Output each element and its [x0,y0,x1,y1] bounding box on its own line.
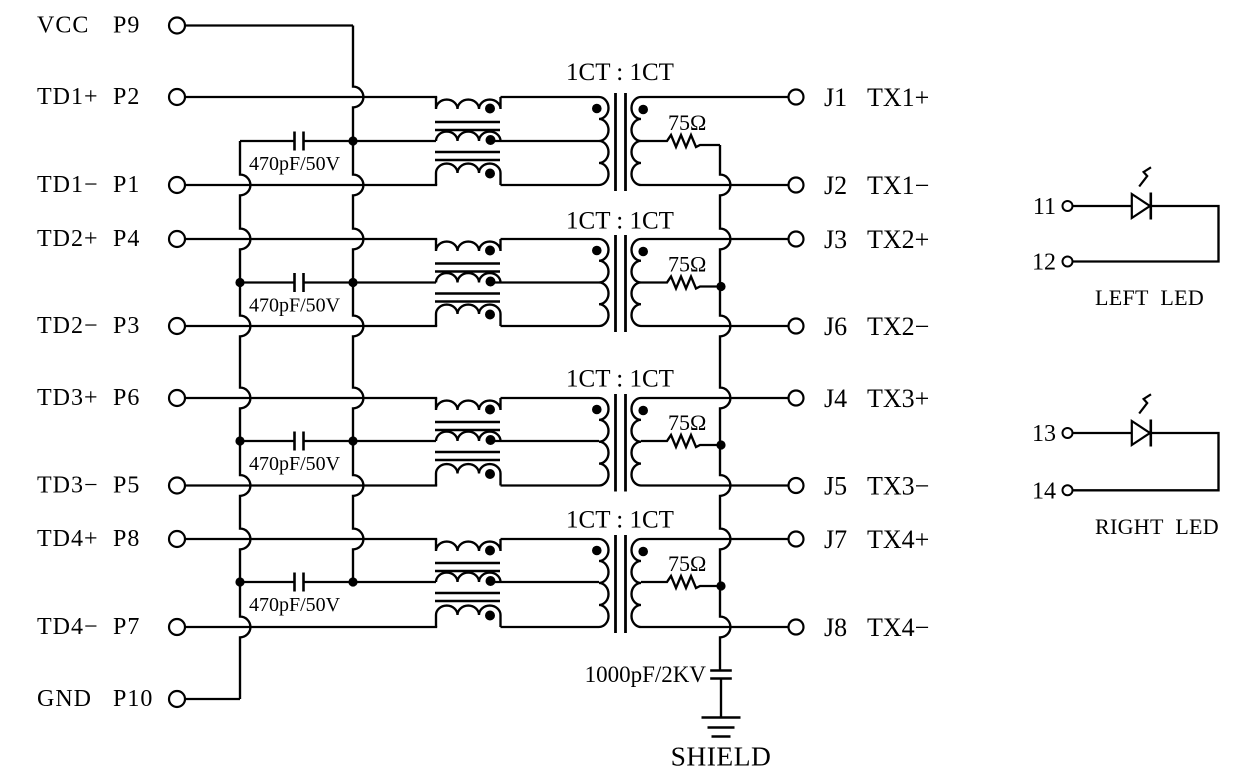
svg-text:TD2+: TD2+ [37,226,99,252]
wire TD1+ pin to choke top winding [186,96,437,98]
pin P10 (GND) terminal and label [37,686,185,712]
wire TD2− pin to choke bottom winding [186,325,437,327]
svg-text:470pF/50V: 470pF/50V [249,594,341,616]
wire transformer T3 secondary top to J4 [641,397,788,399]
common-mode choke (channel 4) 3 windings with core bars and polarity dots [435,539,501,627]
svg-text:470pF/50V: 470pF/50V [249,153,341,175]
svg-text:J7: J7 [824,525,847,554]
svg-text:75Ω: 75Ω [668,252,706,277]
pin J4 (TX3+) terminal and label [789,384,930,413]
pin J5 (TX3−) terminal and label [789,472,930,501]
svg-text:P8: P8 [113,526,140,552]
svg-text:TD2−: TD2− [37,313,99,339]
pin J6 (TX2−) terminal and label [789,312,930,341]
pin P2 (TD1+) terminal and label [37,84,185,110]
pin J3 (TX2+) terminal and label [789,225,930,254]
wire capacitor row left segment (ch3) [240,440,295,442]
transformer T2 (1CT:1CT) primary, secondary, core and polarity dots [592,235,648,332]
svg-text:TD3−: TD3− [37,473,99,499]
wire pin 11 to LED D1 [1073,205,1132,207]
wire transformer T4 secondary bottom to J8 [641,626,788,628]
capacitor 470pF/50V (channel 2) with value label [249,273,341,317]
pin J1 (TX1+) terminal and label [789,83,930,112]
wire capacitor to choke center winding (ch2) [304,281,437,283]
wire transformer T1 secondary bottom to J2 [641,184,788,186]
svg-text:TD1+: TD1+ [37,84,99,110]
wire TD3− pin to choke bottom winding [186,484,437,486]
svg-text:TD4+: TD4+ [37,526,99,552]
wire transformer T2 secondary bottom to J6 [641,325,788,327]
junction dot resistor / shield bus (ch3) [716,440,725,449]
wire choke center to transformer T4 primary center tap [490,581,599,583]
svg-text:11: 11 [1033,194,1056,220]
svg-text:GND: GND [37,686,92,712]
svg-text:TX1−: TX1− [867,171,929,200]
svg-text:P10: P10 [113,686,153,712]
wire capacitor to choke center winding (ch1) [304,140,437,142]
svg-text:P4: P4 [113,226,140,252]
capacitor 1000pF/2KV with value label [585,662,732,687]
junction dot cap row / VCC bus (ch1) [348,136,357,145]
svg-text:P9: P9 [113,13,140,39]
wire choke top to transformer T1 primary top [501,96,600,98]
wire transformer T4 secondary top to J7 [641,538,788,540]
svg-text:P3: P3 [113,313,140,339]
wire choke top to transformer T3 primary top [501,397,600,399]
svg-text:LEFT LED: LEFT LED [1095,285,1204,310]
svg-text:J4: J4 [824,384,847,413]
wire TD3+ pin to choke top winding [186,397,437,399]
svg-text:1000pF/2KV: 1000pF/2KV [585,662,707,687]
pin 13 (LED anode side) [1032,421,1073,447]
svg-text:TX3−: TX3− [867,472,929,501]
wire GND P10 to ground bus [186,698,240,700]
wire choke center to transformer T2 primary center tap [490,281,599,283]
pin J8 (TX4−) terminal and label [789,613,930,642]
wire capacitor row left segment (ch2) [240,281,295,283]
common-mode choke (channel 1) 3 windings with core bars and polarity dots [435,97,501,185]
resistor 75Ω (channel 4) with value label [641,551,720,588]
wire LED D1 cathode to pin 12 (right loop) [1073,206,1219,262]
transformer T3 (1CT:1CT) primary, secondary, core and polarity dots [592,394,648,492]
junction dot resistor / shield bus (ch2) [716,282,725,291]
svg-text:J1: J1 [824,83,847,112]
svg-text:TD4−: TD4− [37,614,99,640]
svg-text:1CT : 1CT: 1CT : 1CT [566,208,674,235]
pin P6 (TD3+) terminal and label [37,385,185,411]
ground SHIELD symbol and label [671,718,772,772]
LED D1 diode symbol with light arrow [1132,167,1151,219]
resistor 75Ω (channel 3) with value label [641,410,720,447]
svg-text:14: 14 [1032,478,1056,504]
pin P8 (TD4+) terminal and label [37,526,185,552]
junction dot resistor / shield bus (ch4) [716,581,725,590]
svg-text:P5: P5 [113,473,140,499]
pin P7 (TD4−) terminal and label [37,614,185,640]
pin P5 (TD3−) terminal and label [37,473,185,499]
wire choke bottom to transformer T4 primary bottom [501,626,600,628]
resistor 75Ω (channel 1) with value label [641,110,720,147]
junction dot cap row / VCC bus (ch3) [348,436,357,445]
svg-text:P7: P7 [113,614,140,640]
common-mode choke (channel 3) 3 windings with core bars and polarity dots [435,398,501,486]
svg-text:TX1+: TX1+ [867,83,929,112]
svg-text:75Ω: 75Ω [668,551,706,576]
svg-text:RIGHT LED: RIGHT LED [1095,514,1219,539]
pin J7 (TX4+) terminal and label [789,525,930,554]
junction dot cap row / VCC bus (ch2) [348,278,357,287]
svg-text:P6: P6 [113,385,140,411]
wire capacitor to choke center winding (ch3) [304,440,437,442]
wire choke top to transformer T4 primary top [501,538,600,540]
svg-text:TX4−: TX4− [867,613,929,642]
pin 12 (LED return side) [1032,250,1073,276]
junction dot cap row / ground bus (ch2) [235,278,244,287]
junction dot cap row / VCC bus (ch4) [348,577,357,586]
pin 11 (LED anode side) [1033,194,1073,220]
wire capacitor to choke center winding (ch4) [304,581,437,583]
svg-text:1CT : 1CT: 1CT : 1CT [566,59,674,86]
resistor 75Ω (channel 2) with value label [641,252,720,289]
wire choke bottom to transformer T1 primary bottom [501,184,600,186]
junction dot cap row / ground bus (ch4) [235,577,244,586]
wire VCC center-tap bus (vertical, hops over TD lines) [353,26,363,583]
capacitor 470pF/50V (channel 1) with value label [249,132,341,176]
wire choke bottom to transformer T2 primary bottom [501,325,600,327]
svg-text:J3: J3 [824,225,847,254]
capacitor 470pF/50V (channel 4) with value label [249,573,341,617]
svg-text:P2: P2 [113,84,140,110]
svg-text:75Ω: 75Ω [668,110,706,135]
pin J2 (TX1−) terminal and label [789,171,930,200]
wire shield bus (vertical from ch1 resistor to 1000pF cap, hops over TX lines) [720,145,730,671]
wire choke top to transformer T2 primary top [501,238,600,240]
LED D2 diode symbol with light arrow [1132,394,1151,446]
wire transformer T2 secondary top to J3 [641,238,788,240]
svg-text:SHIELD: SHIELD [671,741,772,772]
wire capacitor row left segment (ch4) [240,581,295,583]
svg-text:TD1−: TD1− [37,172,99,198]
svg-text:TX4+: TX4+ [867,525,929,554]
wire TD1− pin to choke bottom winding [186,184,437,186]
common-mode choke (channel 2) 3 windings with core bars and polarity dots [435,239,501,326]
svg-text:P1: P1 [113,172,140,198]
wire ground bus (vertical, hops over TD lines) [240,141,250,699]
svg-text:TX3+: TX3+ [867,384,929,413]
svg-text:1CT : 1CT: 1CT : 1CT [566,366,674,393]
pin P9 (VCC) terminal and label [37,13,185,39]
wire pin 13 to LED D2 [1073,432,1132,434]
wire transformer T3 secondary bottom to J5 [641,484,788,486]
svg-text:75Ω: 75Ω [668,410,706,435]
svg-text:12: 12 [1032,250,1056,276]
transformer T4 (1CT:1CT) primary, secondary, core and polarity dots [592,535,648,633]
svg-text:TD3+: TD3+ [37,385,99,411]
wire choke bottom to transformer T3 primary bottom [501,484,600,486]
svg-text:470pF/50V: 470pF/50V [249,453,341,475]
wire TD4− pin to choke bottom winding [186,626,437,628]
pin P4 (TD2+) terminal and label [37,226,185,252]
wire TD2+ pin to choke top winding [186,238,437,240]
wire capacitor row left segment (ch1) [240,140,295,142]
wire LED D2 cathode to pin 14 (right loop) [1073,433,1219,490]
svg-text:1CT : 1CT: 1CT : 1CT [566,507,674,534]
svg-text:TX2−: TX2− [867,312,929,341]
svg-text:J5: J5 [824,472,847,501]
svg-text:J2: J2 [824,171,847,200]
svg-text:470pF/50V: 470pF/50V [249,295,341,317]
transformer T1 (1CT:1CT) primary, secondary, core and polarity dots [592,93,648,191]
wire choke center to transformer T1 primary center tap [490,140,599,142]
pin P3 (TD2−) terminal and label [37,313,185,339]
svg-text:J8: J8 [824,613,847,642]
svg-text:J6: J6 [824,312,847,341]
capacitor 470pF/50V (channel 3) with value label [249,432,341,476]
wire choke center to transformer T3 primary center tap [490,440,599,442]
pin 14 (LED return side) [1032,478,1073,504]
pin P1 (TD1−) terminal and label [37,172,185,198]
junction dot cap row / ground bus (ch3) [235,436,244,445]
wire TD4+ pin to choke top winding [186,538,437,540]
wire 1000pF cap to shield ground [720,679,722,718]
wire transformer T1 secondary top to J1 [641,96,788,98]
svg-text:VCC: VCC [37,13,89,39]
svg-text:13: 13 [1032,421,1056,447]
svg-text:TX2+: TX2+ [867,225,929,254]
wire VCC P9 to center-tap bus [186,24,353,26]
